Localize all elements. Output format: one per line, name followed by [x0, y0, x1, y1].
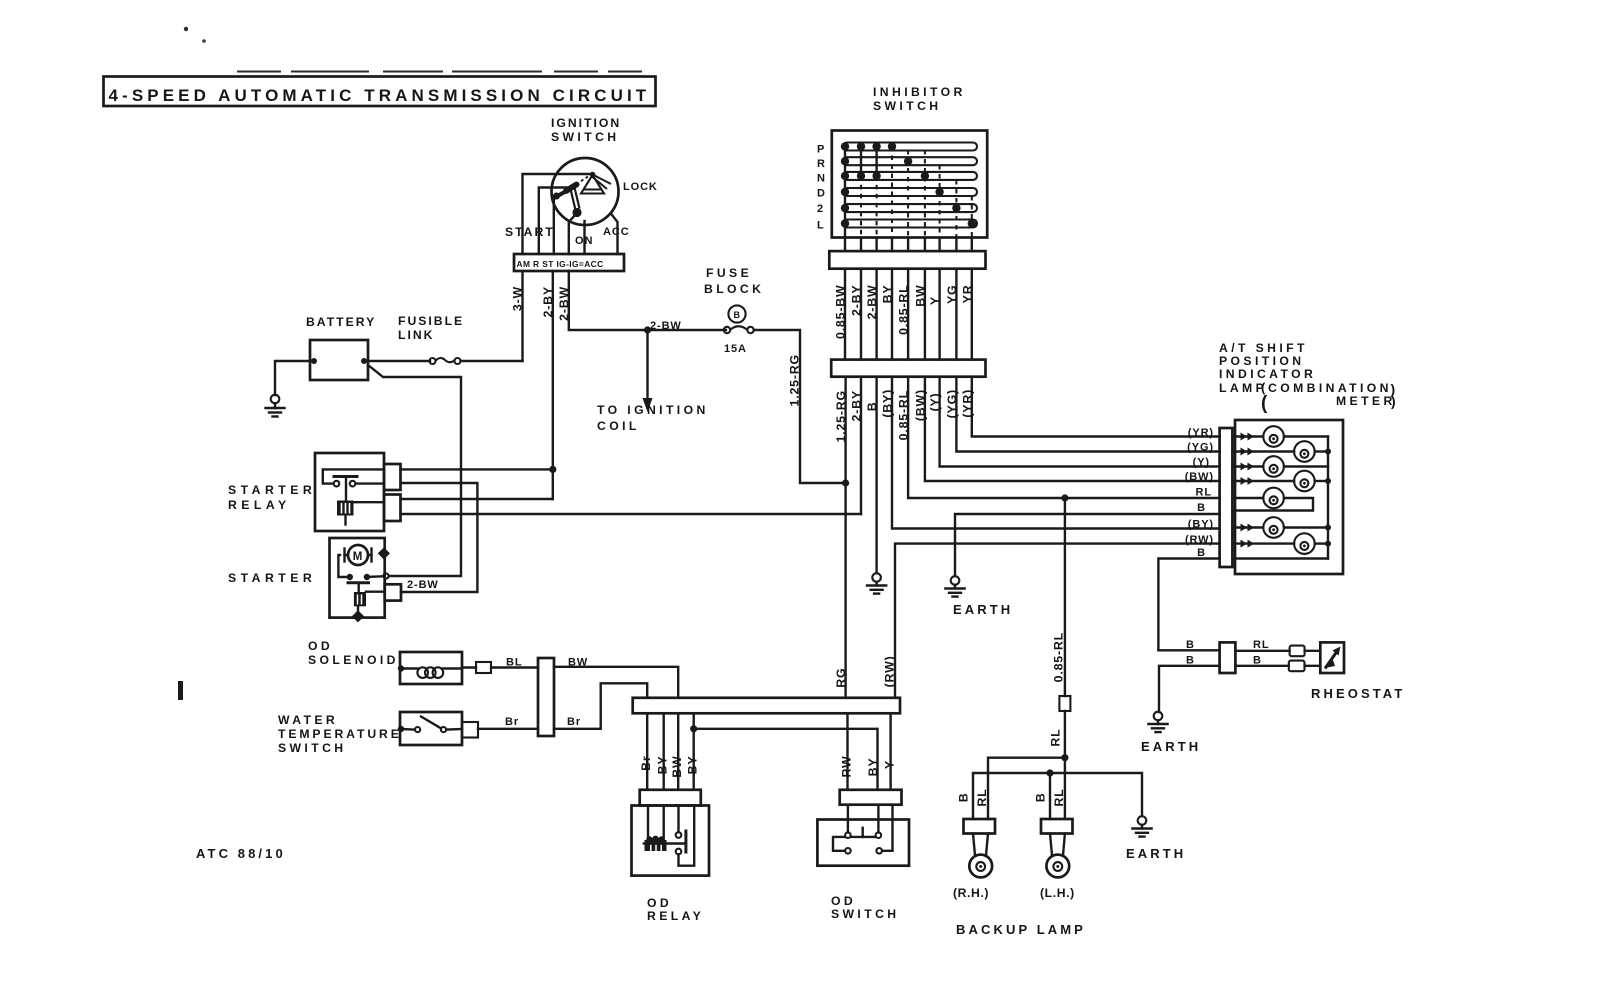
- svg-text:Br: Br: [567, 716, 581, 728]
- svg-text:BY: BY: [656, 756, 670, 775]
- svg-text:B: B: [734, 310, 741, 320]
- junction BY branch: [690, 725, 697, 732]
- earth (battery): [266, 395, 285, 417]
- wire BY bus to OD relay pin4: [693, 713, 695, 790]
- scan artifact bar: [178, 681, 183, 700]
- svg-text:BY: BY: [686, 756, 700, 775]
- svg-text:Y: Y: [883, 760, 897, 769]
- svg-text:A/T SHIFT: A/T SHIFT: [1219, 341, 1308, 355]
- svg-text:0.85-RL: 0.85-RL: [897, 285, 911, 335]
- inhibitor connector bar 2: [831, 360, 985, 377]
- ignition switch contact segment 1: [566, 185, 577, 192]
- svg-text:STARTER: STARTER: [228, 483, 316, 497]
- starter relay internal contact wiring: [323, 469, 384, 483]
- wire 0.85-RL / RL to lamp row 5: [908, 377, 1220, 498]
- starter solenoid coil: [354, 592, 366, 606]
- rheostat body: [1320, 642, 1344, 673]
- svg-text:(Y): (Y): [928, 393, 942, 412]
- wire 2-BY below bar2: [860, 377, 862, 514]
- svg-text:2: 2: [817, 203, 824, 215]
- lamp row 4 D: [1232, 471, 1331, 492]
- wire BW bus to OD relay pin3: [677, 713, 679, 790]
- wire BY branch to OD switch: [694, 729, 878, 790]
- starter box: [330, 538, 385, 618]
- svg-text:4-SPEED AUTOMATIC TRANSMISSION: 4-SPEED AUTOMATIC TRANSMISSION CIRCUIT: [109, 86, 651, 105]
- svg-text:OD: OD: [647, 896, 672, 910]
- battery: [310, 340, 368, 380]
- ignition switch connector block: [514, 254, 624, 271]
- starter relay contact circles: [334, 481, 340, 487]
- wire fusible link to 3-W: [461, 360, 523, 362]
- inline connector on RL wire: [1059, 696, 1070, 711]
- OD switch Y out path: [882, 805, 893, 851]
- wire BY bus to OD relay pin2: [663, 713, 665, 790]
- earth (rheostat): [1148, 712, 1167, 732]
- earth (backup lamp): [1132, 816, 1151, 836]
- svg-text:RL: RL: [1052, 789, 1066, 807]
- svg-text:(L.H.): (L.H.): [1040, 886, 1075, 900]
- scan speck: [184, 27, 188, 31]
- svg-text:BL: BL: [506, 657, 522, 669]
- junction RL branch: [1061, 494, 1068, 501]
- junction 1.25-RG / fuse feed: [842, 479, 849, 486]
- wire rheostat top feed: [1158, 649, 1219, 651]
- ignition switch rotary body: [552, 158, 619, 225]
- starter coil to pin box: [366, 591, 385, 593]
- wire IG terminal from bottom contact: [569, 214, 576, 254]
- ignition switch wiper arm: [571, 188, 580, 211]
- battery terminal left: [311, 358, 317, 364]
- OD relay contact out path: [679, 806, 695, 866]
- wire battery to earth: [275, 361, 314, 395]
- wire battery feed to starter: [368, 365, 461, 576]
- svg-text:2-BW: 2-BW: [650, 320, 682, 332]
- svg-text:TEMPERATURE: TEMPERATURE: [278, 727, 402, 741]
- contact slot row N: [843, 172, 977, 180]
- svg-text:(BY): (BY): [1188, 519, 1214, 531]
- wire RL below connector: [1064, 711, 1066, 758]
- inhibitor common rail wire: [844, 147, 846, 252]
- OD switch pin RW lead: [847, 805, 849, 833]
- OD switch upper contacts: [845, 832, 851, 838]
- backup lamp LH socket: [1050, 834, 1052, 856]
- wire RL rheostat: [1235, 650, 1289, 652]
- svg-text:EARTH: EARTH: [1126, 846, 1186, 861]
- junction LH B wire: [1046, 769, 1053, 776]
- earth (inhibitor B wire): [867, 573, 886, 593]
- svg-text:RL: RL: [975, 789, 989, 807]
- ignition switch rotor pivot: [590, 172, 596, 178]
- wire B rheostat: [1235, 665, 1288, 667]
- starter relay pin box 1: [384, 464, 401, 490]
- starter motor brushes: [343, 549, 345, 562]
- wire 2-BY ignition down to starter relay: [552, 271, 554, 499]
- svg-text:WATER: WATER: [278, 713, 338, 727]
- inhibitor connector bar 1: [829, 251, 985, 269]
- rheostat wiper arrow: [1325, 647, 1341, 669]
- starter motor terminal diamond: [378, 547, 390, 559]
- OD relay connector bar: [640, 790, 701, 806]
- wire (BW) to lamp row 4: [925, 377, 1220, 481]
- backup lamp RH socket: [973, 834, 975, 856]
- wire B below bar2 to earth: [875, 377, 877, 573]
- svg-text:(R.H.): (R.H.): [953, 886, 989, 900]
- svg-text:AM R ST IG-IG=ACC: AM R ST IG-IG=ACC: [517, 259, 604, 269]
- svg-text:EARTH: EARTH: [953, 602, 1013, 617]
- svg-text:(YR): (YR): [960, 389, 974, 418]
- svg-text:(BW): (BW): [1185, 471, 1214, 483]
- earth (lamp B wire): [945, 576, 964, 596]
- svg-text:TO IGNITION: TO IGNITION: [597, 403, 709, 417]
- wire relay pin2 to inhibitor 2-BY: [401, 513, 862, 515]
- svg-text:LOCK: LOCK: [623, 181, 658, 193]
- starter relay coil tail: [344, 516, 346, 525]
- svg-text:RL: RL: [1253, 639, 1269, 651]
- svg-text:2-BW: 2-BW: [407, 579, 439, 591]
- ignition switch contact end circle: [554, 194, 559, 199]
- OD switch bridge contact: [851, 836, 875, 838]
- wire Y bus to OD switch: [889, 713, 891, 790]
- OD relay coil axis wire: [644, 842, 686, 844]
- ignition switch rotor dash: [579, 177, 588, 183]
- svg-text:FUSIBLE: FUSIBLE: [398, 314, 464, 328]
- junction bus bar: [633, 698, 900, 714]
- inhibitor wire 4: [888, 142, 896, 251]
- starter relay coil: [337, 501, 354, 516]
- wire RL to LH lamp: [1064, 758, 1066, 819]
- wire battery to fusible link: [364, 360, 430, 362]
- starter motor lead to contact: [338, 555, 346, 577]
- wire ACC stub: [612, 215, 618, 254]
- svg-text:2-BW: 2-BW: [557, 286, 571, 321]
- svg-text:R: R: [817, 158, 826, 170]
- svg-text:RELAY: RELAY: [647, 909, 704, 923]
- svg-text:0.85-RL: 0.85-RL: [1051, 632, 1065, 682]
- lamp row 3 N: [1232, 456, 1328, 477]
- wire 0.85-RL down to backup lamps: [1064, 498, 1066, 696]
- junction to ignition coil: [644, 326, 651, 333]
- svg-text:B: B: [1034, 793, 1048, 803]
- ignition switch rotor triangle: [581, 175, 604, 194]
- svg-text:START: START: [505, 225, 555, 239]
- starter solenoid T-bar: [348, 581, 369, 584]
- inhibitor wire 3: [872, 142, 880, 251]
- svg-text:Y: Y: [928, 296, 942, 305]
- water temp switch contact: [401, 717, 462, 733]
- lamp internal bus: [1327, 437, 1329, 559]
- OD switch lower contacts: [845, 848, 851, 854]
- wire BW to bus: [554, 667, 678, 698]
- inhibitor switch box: [832, 131, 987, 238]
- rheostat inline fuse bottom: [1289, 661, 1305, 672]
- svg-text:POSITION: POSITION: [1219, 354, 1304, 368]
- svg-text:P: P: [817, 144, 825, 156]
- OD solenoid terminal dot: [398, 665, 404, 671]
- wire ST terminal: [553, 196, 555, 254]
- lamp row 9 B return: [1232, 557, 1328, 559]
- svg-text:RW: RW: [840, 756, 854, 778]
- harness connector bar (solenoid/switch): [538, 658, 554, 736]
- svg-text:2-BY: 2-BY: [541, 286, 555, 317]
- svg-text:(Y): (Y): [1193, 457, 1210, 469]
- svg-text:RG: RG: [834, 668, 848, 688]
- backup lamp LH bulb: [1046, 855, 1069, 878]
- svg-text:(BW): (BW): [913, 389, 927, 421]
- svg-text:RELAY: RELAY: [228, 498, 291, 512]
- wire RL to RH lamp: [988, 758, 1065, 819]
- wire Br bus to OD relay pin1: [646, 713, 648, 790]
- svg-text:RL: RL: [1196, 487, 1212, 499]
- wire fuse to L25-RG drop: [754, 330, 842, 483]
- wire (RW) lamp row 8 down to bus: [895, 544, 1220, 698]
- svg-text:(YR): (YR): [1188, 427, 1214, 439]
- contact slot row D: [843, 188, 977, 196]
- contact slot row P: [843, 143, 977, 151]
- wire B LH lamp: [1049, 773, 1051, 819]
- svg-text:BY: BY: [881, 285, 895, 304]
- harness wires bar1 to bar2: [844, 269, 846, 360]
- OD relay contact feed: [677, 806, 679, 833]
- svg-text:2-BW: 2-BW: [865, 285, 879, 320]
- wire Br to bar: [478, 728, 538, 730]
- inhibitor wire 6: [921, 150, 929, 251]
- OD switch pin BY lead: [877, 805, 879, 833]
- wire 2-BW ignition to fuse: [569, 271, 726, 330]
- backup lamp RH connector: [964, 819, 996, 834]
- wire (Y) to lamp row 3: [940, 377, 1220, 467]
- svg-text:1.25-RG: 1.25-RG: [834, 390, 848, 442]
- OD switch connector bar: [840, 790, 902, 805]
- svg-text:INDICATOR: INDICATOR: [1219, 367, 1316, 381]
- wire (YR) to lamp row 1: [972, 377, 1220, 437]
- backup lamp LH connector: [1041, 819, 1073, 834]
- starter relay pin box 2: [384, 495, 401, 522]
- wire RG down to bus: [844, 483, 846, 698]
- rheostat inline fuse top: [1290, 646, 1305, 657]
- junction 2-BY at relay: [549, 466, 556, 473]
- svg-text:Br: Br: [505, 716, 519, 728]
- wire B lamp row 9 to rheostat feed: [1158, 559, 1219, 651]
- svg-text:ACC: ACC: [603, 226, 630, 238]
- water temp switch terminal dot: [398, 726, 404, 732]
- inhibitor wire 7: [935, 165, 943, 251]
- svg-text:(: (: [1261, 393, 1268, 414]
- wire (YG) to lamp row 2: [956, 377, 1219, 452]
- svg-text:COIL: COIL: [597, 419, 640, 433]
- svg-text:N: N: [817, 173, 826, 185]
- svg-text:Br: Br: [639, 756, 653, 771]
- junction RL backup lamp split: [1061, 754, 1068, 761]
- ignition switch lock pointer: [593, 175, 612, 190]
- svg-text:SWITCH: SWITCH: [278, 741, 346, 755]
- wire (BY) to lamp row 7: [892, 377, 1220, 529]
- wire pivot to START terminal: [523, 174, 590, 254]
- wire OD solenoid BL: [462, 666, 476, 668]
- OD relay box: [632, 806, 710, 876]
- OD solenoid box: [400, 652, 462, 684]
- svg-text:YR: YR: [960, 285, 974, 304]
- svg-text:IGNITION: IGNITION: [551, 116, 621, 130]
- svg-text:D: D: [817, 188, 826, 200]
- svg-text:BW: BW: [913, 285, 927, 307]
- svg-text:B: B: [865, 402, 879, 412]
- battery terminal right: [361, 358, 367, 364]
- OD switch box: [817, 820, 909, 866]
- title box: [104, 77, 656, 107]
- svg-text:STARTER: STARTER: [228, 571, 316, 585]
- wire Br to bus: [554, 683, 647, 729]
- OD switch left return loop: [833, 837, 845, 851]
- svg-text:2-BY: 2-BY: [850, 390, 864, 421]
- starter relay contact to pin1: [356, 482, 385, 484]
- OD solenoid connector: [476, 662, 491, 673]
- wire 1.25-RG below bar2: [844, 377, 846, 483]
- wire ON stub: [583, 221, 585, 254]
- wire 3-W ignition to fusible link: [521, 271, 523, 361]
- lamp row 8 L: [1232, 533, 1331, 554]
- water temp switch connector tab: [462, 722, 478, 738]
- inhibitor wire 5: [904, 150, 912, 251]
- svg-text:METER: METER: [1336, 394, 1396, 408]
- OD relay coil: [645, 836, 667, 851]
- svg-text:BACKUP LAMP: BACKUP LAMP: [956, 922, 1086, 937]
- svg-text:LAMP: LAMP: [1219, 381, 1267, 395]
- svg-text:15A: 15A: [724, 343, 747, 355]
- svg-text:COMBINATION: COMBINATION: [1268, 381, 1392, 395]
- fuse indicator circle B: [728, 305, 745, 322]
- wire rheostat bottom to earth: [1159, 666, 1220, 712]
- lamp row 5 RL bulb with B return loop: [1232, 488, 1313, 511]
- svg-text:RL: RL: [1048, 729, 1062, 747]
- svg-text:(RW): (RW): [883, 656, 897, 688]
- svg-text:B: B: [1253, 655, 1262, 667]
- wire B backup lamps to earth: [973, 773, 1142, 819]
- starter motor M: [348, 545, 368, 565]
- wires fuses to rheostat: [1305, 650, 1321, 652]
- lamp row 2 R: [1232, 441, 1331, 462]
- svg-text:(YG): (YG): [1187, 442, 1214, 454]
- inhibitor wire 2: [857, 142, 865, 251]
- svg-text:3-W: 3-W: [511, 286, 525, 311]
- lamp row 1 P: [1232, 426, 1328, 447]
- svg-text:FUSE: FUSE: [706, 266, 752, 280]
- svg-text:OD: OD: [308, 639, 333, 653]
- starter relay box: [315, 453, 384, 531]
- svg-text:(BY): (BY): [881, 389, 895, 418]
- svg-text:OD: OD: [831, 894, 856, 908]
- svg-text:B: B: [1197, 547, 1206, 559]
- starter feed terminal circle: [383, 573, 388, 578]
- contact slot row R: [843, 157, 977, 165]
- contact slot row 2: [843, 204, 977, 212]
- wire RW bus to OD switch: [846, 713, 848, 790]
- svg-text:ATC 88/10: ATC 88/10: [196, 846, 286, 861]
- starter relay armature T-bar: [334, 475, 357, 478]
- OD relay contact circles: [676, 832, 682, 838]
- svg-text:(YG): (YG): [945, 389, 959, 418]
- OD relay armature: [684, 831, 687, 852]
- svg-text:BATTERY: BATTERY: [306, 315, 376, 329]
- svg-text:SWITCH: SWITCH: [873, 99, 941, 113]
- svg-text:0.85-RL: 0.85-RL: [897, 390, 911, 440]
- rheostat connector: [1220, 642, 1236, 673]
- OD solenoid coil: [401, 667, 462, 678]
- inhibitor wire 9: [968, 196, 976, 251]
- svg-text:B: B: [957, 793, 971, 803]
- svg-text:SOLENOID: SOLENOID: [308, 653, 399, 667]
- svg-text:BY: BY: [866, 758, 880, 777]
- starter contact dots: [347, 574, 353, 580]
- svg-text:L: L: [817, 220, 825, 232]
- svg-text:LINK: LINK: [398, 328, 434, 342]
- svg-text:EARTH: EARTH: [1141, 739, 1201, 754]
- svg-text:0.85-BW: 0.85-BW: [834, 285, 848, 340]
- wire relay pin1 to 2-BY junction: [401, 468, 553, 470]
- ignition switch bottom contact: [572, 208, 581, 217]
- wire to ignition coil with arrow: [646, 330, 648, 400]
- lamp row 7 2: [1232, 517, 1331, 538]
- svg-text:BW: BW: [670, 756, 684, 778]
- svg-text:SWITCH: SWITCH: [551, 130, 619, 144]
- contact slot row L: [843, 220, 977, 228]
- svg-text:(RW): (RW): [1185, 534, 1214, 546]
- fusible link element: [430, 358, 436, 364]
- wire B lamp row 6 to earth: [955, 514, 1220, 576]
- svg-text:BLOCK: BLOCK: [704, 282, 764, 296]
- svg-text:B: B: [1186, 639, 1195, 651]
- starter coil to ground diamond: [357, 606, 359, 611]
- starter pin box: [385, 584, 401, 600]
- water temperature switch box: [400, 712, 462, 745]
- wire relay pin2 up-link: [401, 498, 553, 500]
- svg-text:B: B: [1197, 502, 1206, 514]
- svg-text:B: B: [1186, 655, 1195, 667]
- fuse 15A element: [724, 327, 730, 333]
- wire relay pin1 to starter solenoid: [401, 483, 478, 592]
- svg-text:SWITCH: SWITCH: [831, 907, 899, 921]
- svg-text:INHIBITOR: INHIBITOR: [873, 85, 966, 99]
- svg-text:YG: YG: [945, 285, 959, 305]
- backup lamp RH bulb: [969, 855, 992, 878]
- OD relay coil leads: [647, 806, 649, 839]
- ignition switch contact segment 2: [555, 191, 567, 198]
- svg-text:): ): [1391, 393, 1396, 409]
- svg-text:1.25-RG: 1.25-RG: [788, 354, 802, 406]
- svg-text:M: M: [353, 551, 363, 563]
- starter relay coil to pin2: [354, 501, 385, 503]
- starter contact dot to case terminal: [367, 575, 384, 578]
- svg-text:RHEOSTAT: RHEOSTAT: [1311, 686, 1405, 701]
- wire R terminal: [539, 188, 571, 255]
- inhibitor wire 8: [952, 180, 960, 251]
- combination meter connector bar: [1220, 428, 1233, 567]
- svg-text:2-BY: 2-BY: [850, 285, 864, 316]
- broken line above title: [237, 71, 642, 73]
- combination meter housing: [1235, 420, 1343, 574]
